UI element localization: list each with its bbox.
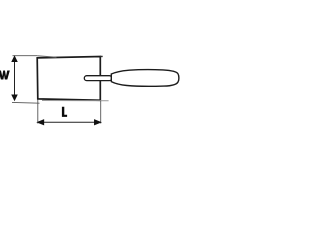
dimension extension line L right <box>100 101 102 124</box>
blade top edge overshoot <box>100 55 102 57</box>
label L <box>62 107 67 117</box>
trowel blade (quadrilateral plate) <box>37 57 100 101</box>
wooden handle <box>111 70 179 87</box>
blade bottom far edge (perspective sliver) <box>42 100 109 102</box>
dimension extension line L left <box>37 100 39 124</box>
blade top far edge (perspective sliver) <box>37 56 56 58</box>
handle shaft / tang <box>84 76 112 81</box>
dimension line L with arrows <box>37 120 101 125</box>
dimension extension line W top <box>13 55 38 57</box>
dimension line W with arrows <box>12 56 17 100</box>
dimension extension line W bottom <box>12 101 40 104</box>
label W <box>0 71 10 80</box>
